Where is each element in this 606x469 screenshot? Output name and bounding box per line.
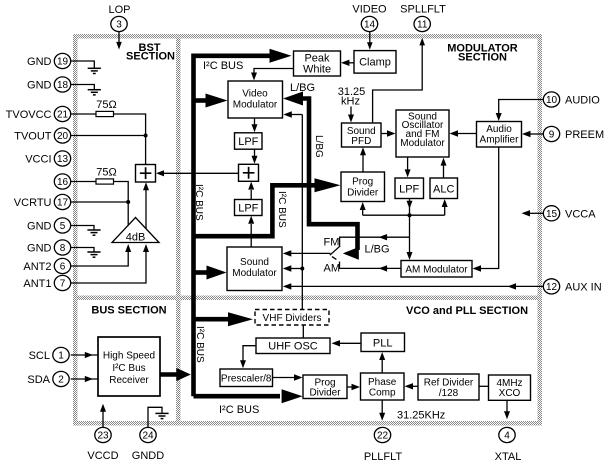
wire prescaler to prog divider (PLL) (273, 377, 296, 379)
wire SDA pin 2 to receiver (71, 378, 98, 380)
svg-text:11: 11 (417, 20, 428, 31)
pin 13 VCCI (54, 151, 70, 166)
amplifier 4dB (112, 218, 159, 243)
svg-text:PFD: PFD (351, 136, 371, 147)
wire AUX IN pin 12 to sound modulator (287, 285, 543, 287)
wire feedback net horizontal (363, 214, 445, 216)
svg-text:21: 21 (57, 110, 69, 121)
svg-text:5: 5 (60, 221, 66, 232)
svg-text:UHF OSC: UHF OSC (268, 341, 318, 353)
wire ANT1 pin 7 to 4dB amp (71, 248, 146, 283)
ground symbol GND19 (88, 68, 101, 73)
wire sound modulator to LPF lower (250, 224, 252, 247)
thick L/BG wire from Video Modulator to FM/AM switch (297, 99, 358, 251)
AM contact and wire to AM modulator (340, 262, 402, 269)
svg-text:75Ω: 75Ω (96, 99, 116, 111)
wire TVOUT pin 20 (71, 135, 146, 137)
sound PFD box (342, 123, 382, 147)
pin 21 TVOVCC (54, 106, 70, 121)
svg-text:VCCA: VCCA (565, 208, 596, 220)
pin 18 GND (54, 77, 70, 92)
svg-text:I²C Bus: I²C Bus (112, 363, 145, 374)
svg-text:Divider: Divider (347, 188, 379, 199)
prescaler/8 box (220, 369, 273, 387)
svg-text:ALC: ALC (433, 184, 454, 196)
svg-text:Comp: Comp (369, 388, 396, 399)
resistor 75 ohm upper (96, 111, 114, 116)
junction VCRTU node (126, 200, 130, 204)
svg-text:Prog: Prog (352, 177, 373, 188)
svg-text:9: 9 (549, 130, 555, 141)
pin 5 GND (54, 218, 70, 233)
pin 17 VCRTU (54, 194, 70, 209)
PLL box (361, 333, 405, 352)
wire VHF dividers to UHF OSC (302, 325, 304, 338)
wire phase comp to PLL (381, 358, 383, 373)
svg-text:PLLFLT: PLLFLT (364, 451, 403, 463)
svg-text:19: 19 (57, 57, 69, 68)
svg-text:4: 4 (504, 431, 510, 442)
pin 6 ANT2 (54, 258, 70, 273)
wire feedback to ALC (444, 207, 446, 215)
ground symbol GND8 (87, 252, 100, 257)
svg-text:PREEM: PREEM (565, 129, 604, 141)
svg-text:Audio: Audio (486, 124, 512, 135)
svg-text:8: 8 (60, 243, 66, 254)
svg-text:Prescaler/8: Prescaler/8 (221, 374, 272, 385)
wire resistor to adder node (114, 114, 146, 164)
svg-text:Video: Video (242, 89, 268, 100)
pin 16 (54, 174, 70, 189)
svg-text:12: 12 (546, 282, 558, 293)
wire VCCA pin 15 supply arrow (528, 212, 543, 214)
svg-text:Modulator: Modulator (232, 268, 277, 279)
pin 20 TVOUT (54, 128, 70, 143)
svg-text:VHF Dividers: VHF Dividers (263, 313, 322, 324)
svg-text:ANT2: ANT2 (23, 261, 51, 273)
pin 9 PREEM (543, 126, 559, 141)
ALC box (430, 178, 458, 199)
pin 23 VCCD (95, 427, 111, 442)
svg-text:LOP: LOP (108, 4, 130, 16)
svg-text:15: 15 (546, 209, 558, 220)
svg-text:kHz: kHz (341, 96, 360, 108)
wire LPF3 down to AM modulator with feedback net (409, 199, 411, 255)
wire AM row to sound modulator (287, 268, 302, 270)
peak white box (294, 51, 341, 76)
wire Clamp to Peak White (345, 62, 354, 64)
svg-text:2: 2 (58, 375, 64, 386)
pin 7 ANT1 (54, 275, 70, 290)
svg-text:ANT1: ANT1 (23, 278, 51, 290)
svg-text:Divider: Divider (309, 388, 341, 399)
svg-text:1: 1 (58, 351, 64, 362)
svg-text:/128: /128 (439, 388, 459, 399)
wire GND 5 to ground (71, 226, 94, 230)
audio amplifier box (477, 122, 522, 148)
LPF box lower (235, 200, 263, 216)
adder box (modulator) (239, 164, 259, 181)
wire prog divider to phase comp (347, 386, 353, 388)
svg-text:TVOUT: TVOUT (14, 131, 52, 143)
pin 22 PLLFLT (374, 427, 390, 442)
wire 31.25kHz into Sound PFD (350, 107, 352, 117)
wire ALC to sound oscillator (443, 163, 445, 178)
svg-text:SDA: SDA (27, 374, 50, 386)
wire SPLLFLT pin 11 from Sound PFD (373, 44, 423, 123)
wire XCO to XTAL pin 4 (506, 400, 508, 412)
svg-text:L/BG: L/BG (290, 82, 315, 94)
svg-text:VCCD: VCCD (87, 450, 118, 462)
pin 15 VCCA (543, 206, 559, 221)
wire ref divider to phase comp (411, 385, 418, 387)
high speed I2C bus receiver U1 (98, 337, 160, 396)
svg-text:GND: GND (27, 56, 52, 68)
svg-text:I²C BUS: I²C BUS (203, 60, 243, 72)
pin 2 SDA (53, 371, 69, 386)
thick I2C bus bottom run to Prog Divider (PLL) (194, 394, 281, 399)
wire sound PFD to sound oscillator (381, 133, 388, 135)
wire AUDIO pin 10 into audio amplifier (499, 100, 544, 116)
svg-text:16: 16 (57, 177, 69, 188)
UHF OSC box (256, 338, 330, 354)
wire audio amplifier to AM modulator (478, 147, 499, 269)
svg-text:20: 20 (57, 131, 69, 142)
svg-text:SECTION: SECTION (458, 52, 507, 64)
thick I2C bus branch to VHF dividers (194, 317, 231, 322)
svg-text:AUX IN: AUX IN (565, 281, 602, 293)
IC outer border top band (73, 34, 542, 39)
svg-text:LPF: LPF (238, 136, 258, 148)
pin 11 SPLLFLT (414, 16, 430, 31)
ground symbol GNDD (155, 413, 168, 418)
wire LPF lower to adder (250, 190, 252, 199)
svg-text:13: 13 (57, 154, 69, 165)
svg-text:31.25KHz: 31.25KHz (397, 410, 445, 422)
wire VIDEO pin 14 into Clamp (369, 32, 371, 43)
sound modulator box (227, 247, 282, 291)
svg-text:7: 7 (60, 279, 66, 290)
pin 3 LOP (111, 16, 127, 31)
wire SCL pin 1 to receiver (71, 354, 98, 356)
svg-text:BUS SECTION: BUS SECTION (91, 305, 166, 317)
svg-text:Modulator: Modulator (233, 100, 278, 111)
svg-text:VCRTU: VCRTU (14, 197, 52, 209)
wire Peak White to Video Modulator (254, 69, 294, 77)
svg-text:6: 6 (60, 262, 66, 273)
svg-text:Clamp: Clamp (359, 57, 391, 69)
svg-text:TVOVCC: TVOVCC (6, 109, 52, 121)
svg-text:3: 3 (116, 20, 122, 31)
svg-text:XCO: XCO (499, 388, 521, 399)
thick I2C bus middle run to Prog Divider (sound) (194, 185, 316, 236)
LPF box sound (395, 178, 424, 199)
svg-text:VIDEO: VIDEO (352, 4, 387, 16)
LPF box upper (235, 133, 263, 149)
pin 8 GND (54, 240, 70, 255)
adder box left (BST) (136, 165, 156, 183)
ground symbol GND5 (87, 230, 100, 235)
prog divider box (sound) (341, 172, 385, 202)
IC outer border bottom band (73, 421, 542, 426)
wire feedback to prog divider (362, 208, 364, 215)
svg-text:GND: GND (27, 243, 52, 255)
svg-text:SCL: SCL (29, 350, 50, 362)
clamp box (354, 51, 396, 74)
wire LPF to adder (254, 149, 256, 157)
svg-text:L/BG: L/BG (365, 244, 390, 256)
switch lever FM/AM (330, 246, 341, 260)
AM modulator box (401, 261, 472, 278)
section divider vertical band (176, 34, 181, 426)
svg-text:17: 17 (57, 198, 69, 209)
svg-text:23: 23 (97, 431, 109, 442)
wire sound oscillator to LPF3 (407, 157, 409, 171)
IC outer border right band (538, 34, 543, 426)
pin 24 GNDD (140, 427, 156, 442)
wire from modulator adder to BST adder (161, 172, 239, 174)
svg-text:LPF: LPF (399, 184, 419, 196)
pin 4 XTAL (499, 427, 515, 442)
wire LOP pin 3 into BST section (118, 32, 120, 44)
wire phase comp to PLLFLT pin 22 (381, 400, 383, 414)
wire 4dB output to adder (145, 186, 147, 229)
svg-text:Prog: Prog (314, 377, 335, 388)
junction feedback node (408, 213, 412, 217)
svg-text:Phase: Phase (368, 377, 397, 388)
wire XCO to ref divider (479, 385, 489, 387)
svg-text:Ref Divider: Ref Divider (424, 377, 474, 388)
IC outer border left band (73, 34, 78, 426)
svg-text:Sound: Sound (240, 257, 269, 268)
svg-text:I²C BUS: I²C BUS (193, 184, 204, 221)
wire PREEM pin 9 into audio amplifier (529, 133, 543, 135)
svg-text:XTAL: XTAL (495, 451, 522, 463)
FM contact and wire (340, 237, 410, 246)
wire UHF OSC to prescaler (243, 346, 256, 361)
svg-text:VCCI: VCCI (25, 154, 51, 166)
thick I2C bus branch to Video Modulator (194, 98, 208, 103)
svg-text:High Speed: High Speed (103, 351, 155, 362)
svg-text:L/BG: L/BG (313, 135, 324, 158)
thick I2C bus branch to Sound Modulator (194, 270, 209, 275)
wire GNDD pin 24 to ground (148, 407, 162, 427)
junction AM row node (300, 267, 304, 271)
wire GND 18 to ground (71, 85, 95, 90)
svg-text:GNDD: GNDD (132, 450, 164, 462)
svg-text:Amplifier: Amplifier (480, 135, 520, 146)
pin 14 VIDEO (361, 16, 377, 31)
svg-text:4dB: 4dB (126, 232, 146, 244)
wire pin 16 to resistor (71, 181, 96, 183)
svg-text:18: 18 (57, 80, 69, 91)
wire ANT2 pin 6 to 4dB amp (71, 248, 129, 266)
wire video modulator aux input vertical (301, 115, 303, 310)
svg-text:VCO and PLL SECTION: VCO and PLL SECTION (406, 305, 528, 317)
prog divider box (PLL) (303, 375, 347, 399)
video modulator box (228, 81, 283, 118)
svg-text:Modulator: Modulator (400, 138, 445, 149)
svg-text:FM: FM (324, 237, 340, 249)
svg-text:White: White (303, 64, 331, 76)
sound oscillator and FM modulator box (396, 110, 449, 157)
svg-text:AM Modulator: AM Modulator (405, 264, 468, 275)
4MHz XCO box (489, 375, 531, 400)
section divider horizontal band (73, 296, 542, 301)
pin 1 SCL (53, 347, 69, 362)
wire audio amplifier to sound oscillator (456, 133, 477, 135)
svg-text:75Ω: 75Ω (96, 166, 116, 178)
wire VCCD pin 23 supply arrow (102, 410, 104, 428)
pin 19 GND (54, 53, 70, 68)
resistor 75 ohm lower (96, 179, 114, 184)
svg-text:PLL: PLL (373, 338, 393, 350)
wire GND 8 to ground (71, 248, 94, 252)
svg-text:AM: AM (324, 263, 341, 275)
svg-text:LPF: LPF (238, 203, 258, 215)
svg-text:GND: GND (27, 80, 52, 92)
svg-text:14: 14 (364, 20, 376, 31)
wire GND 19 to ground (71, 61, 95, 68)
svg-text:I²C BUS: I²C BUS (276, 191, 287, 228)
wire video modulator to LPF (254, 118, 256, 126)
wire FM pole to sound modulator (287, 252, 330, 254)
thick wire receiver output to I2C bus (160, 372, 177, 377)
wire VCRTU pin 17 (71, 201, 129, 203)
svg-text:GND: GND (27, 221, 52, 233)
svg-text:SPLLFLT: SPLLFLT (400, 4, 446, 16)
wire PLL to UHF OSC (338, 342, 361, 344)
svg-text:22: 22 (377, 431, 389, 442)
svg-text:I²C BUS: I²C BUS (194, 326, 205, 363)
svg-text:24: 24 (142, 431, 154, 442)
ground symbol GND18 (88, 90, 101, 95)
wire resistor to 4dB amp input (114, 182, 129, 227)
svg-text:SECTION: SECTION (126, 51, 175, 63)
ref divider /128 box (418, 374, 479, 400)
pin 10 AUDIO (543, 92, 559, 107)
junction TVOUT node (144, 134, 148, 138)
VHF dividers dashed box (255, 310, 329, 326)
svg-text:AUDIO: AUDIO (565, 95, 600, 107)
svg-text:Receiver: Receiver (109, 375, 149, 386)
wire TVOVCC pin 21 to resistor (71, 113, 96, 115)
wire prog divider to sound PFD (362, 153, 364, 172)
thick I2C bus main vertical with top branch to Peak White (194, 56, 271, 396)
svg-text:10: 10 (546, 95, 558, 106)
pin 12 AUX IN (543, 279, 559, 294)
svg-text:I²C BUS: I²C BUS (219, 404, 259, 416)
phase comp box (361, 373, 405, 400)
